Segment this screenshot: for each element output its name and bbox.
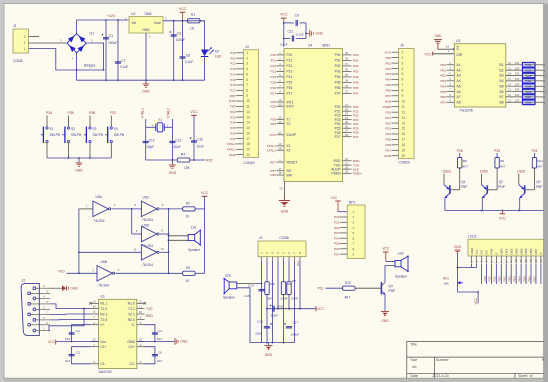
svg-text:B1: B1 [500, 63, 504, 67]
svg-text:P04: P04 [353, 75, 359, 79]
svg-text:P02: P02 [334, 226, 340, 230]
svg-text:11: 11 [139, 305, 142, 309]
pin INT0 U4 left [270, 102, 293, 108]
ground GND q4 [381, 312, 389, 324]
pin C2- U1 right [129, 360, 144, 366]
svg-text:R1.0: R1.0 [128, 302, 135, 306]
svg-text:S4: S4 [114, 127, 118, 131]
pin X2 U4 left [267, 146, 291, 152]
svg-text:B3: B3 [500, 74, 504, 78]
svg-text:3: 3 [353, 221, 355, 225]
pin P22 U4 right [335, 112, 359, 118]
svg-text:4K7: 4K7 [500, 165, 506, 169]
svg-text:29: 29 [345, 170, 348, 174]
wire LCD pin 13 [530, 264, 532, 285]
svg-text:P24: P24 [385, 132, 391, 136]
pin ALE/P U4 right [331, 165, 359, 171]
pin P24 U4 right [335, 120, 359, 126]
svg-text:4K7: 4K7 [537, 165, 543, 169]
svg-text:1: 1 [353, 210, 355, 214]
svg-text:18: 18 [402, 143, 406, 147]
svg-text:LCD1: LCD1 [468, 235, 477, 239]
svg-text:P25: P25 [385, 138, 391, 142]
svg-text:R8: R8 [463, 159, 467, 163]
svg-text:4: 4 [246, 67, 248, 71]
svg-text:P07: P07 [532, 276, 536, 282]
svg-text:R: R [542, 358, 545, 362]
svg-text:200K: 200K [291, 297, 299, 301]
node P24 [532, 149, 538, 153]
svg-text:D01: D01 [526, 63, 532, 67]
pin P00 U4 right [335, 51, 359, 57]
svg-text:P07: P07 [335, 92, 341, 96]
svg-text:P21: P21 [488, 276, 492, 282]
wire bridge right loop [86, 43, 103, 70]
resistor R5 4K7 [265, 261, 275, 343]
ground GND mcu top [305, 30, 323, 37]
svg-text:10: 10 [161, 247, 165, 251]
svg-text:C15: C15 [244, 294, 250, 298]
svg-text:P10: P10 [58, 270, 64, 274]
svg-text:14: 14 [534, 259, 538, 262]
svg-text:Number: Number [436, 358, 450, 362]
svg-text:VCC: VCC [280, 13, 288, 17]
svg-text:GND: GND [265, 353, 273, 357]
wire LS2 bottom [237, 288, 262, 343]
svg-text:R4: R4 [181, 153, 185, 157]
svg-text:INT0: INT0 [287, 105, 294, 109]
svg-text:330: 330 [515, 88, 520, 92]
wire LCD pin 7 [500, 264, 502, 285]
svg-text:Date: Date [410, 374, 418, 378]
svg-text:GND: GND [381, 319, 389, 323]
svg-text:P22: P22 [385, 121, 391, 125]
svg-text:D06: D06 [526, 90, 532, 94]
svg-text:PNP: PNP [389, 289, 396, 293]
pin T0 U4 left [270, 120, 290, 126]
wire LCD pin 14 [535, 264, 537, 285]
svg-text:11: 11 [345, 161, 348, 165]
svg-text:VCC: VCC [425, 52, 433, 56]
node P11 [318, 287, 343, 291]
pin P01 U4 right [335, 57, 359, 63]
svg-text:8: 8 [353, 247, 355, 251]
svg-text:GND: GND [229, 153, 237, 157]
capacitor C10 10uF [190, 137, 204, 149]
switch S4 SW-PB [105, 116, 124, 159]
node P22 lcd [493, 276, 497, 282]
svg-text:P16: P16 [230, 83, 236, 87]
resistor R11 4K7 [532, 153, 543, 190]
wire LS2 top [237, 283, 263, 285]
power VCC lcd [474, 297, 478, 304]
svg-text:D03: D03 [526, 74, 532, 78]
svg-text:C4: C4 [158, 329, 162, 333]
svg-text:XTAL2: XTAL2 [167, 108, 171, 118]
svg-text:VCC: VCC [190, 110, 198, 114]
svg-text:11: 11 [402, 105, 406, 109]
svg-text:74LS04: 74LS04 [142, 218, 153, 222]
svg-text:P05: P05 [353, 81, 359, 85]
svg-text:D07: D07 [526, 95, 532, 99]
connector J4 CON20 [227, 45, 259, 165]
svg-text:26: 26 [345, 124, 348, 128]
pin C1+ U1 left [91, 343, 107, 349]
svg-text:P04: P04 [385, 78, 391, 82]
svg-text:CON20: CON20 [243, 161, 254, 165]
svg-text:4K7: 4K7 [345, 296, 351, 300]
svg-text:P17: P17 [230, 89, 236, 93]
svg-text:DB7: DB7 [534, 248, 538, 254]
svg-text:ALE: ALE [385, 99, 391, 103]
svg-text:10K: 10K [184, 166, 191, 170]
svg-text:U5D: U5D [143, 224, 150, 228]
svg-text:U3: U3 [456, 39, 460, 43]
svg-text:Title: Title [410, 342, 417, 346]
svg-text:P03: P03 [335, 70, 341, 74]
capacitor C4 104 [145, 325, 163, 342]
svg-text:DIR: DIR [457, 53, 463, 57]
resistor network row B3 330 [500, 72, 546, 78]
svg-text:Vin: Vin [132, 21, 137, 25]
svg-text:D08: D08 [526, 101, 532, 105]
svg-text:P13: P13 [287, 70, 293, 74]
svg-text:P15: P15 [230, 78, 236, 82]
svg-text:VCC: VCC [317, 307, 325, 311]
svg-text:Vcc: Vcc [100, 340, 106, 344]
svg-text:11: 11 [133, 248, 136, 252]
pin P21 U4 right [335, 107, 359, 113]
svg-text:11: 11 [519, 259, 523, 262]
svg-text:330: 330 [515, 66, 520, 70]
power VCC j3 [316, 306, 325, 311]
resistor network row B5 330 [500, 82, 546, 88]
node P06 lcd [527, 276, 531, 282]
resistor R2 1K [183, 202, 205, 219]
svg-text:19: 19 [279, 142, 282, 146]
pin P05 U4 right [335, 79, 359, 85]
svg-text:LED: LED [215, 55, 222, 59]
capacitor C5 104 [65, 347, 91, 364]
node P07 lcd [532, 276, 536, 282]
svg-text:P06: P06 [335, 86, 341, 90]
svg-text:P06: P06 [385, 89, 391, 93]
svg-text:11: 11 [508, 98, 511, 102]
svg-text:17: 17 [279, 167, 282, 171]
wire J1 pin2 to bridge [29, 42, 68, 44]
svg-text:U4: U4 [308, 44, 312, 48]
pin P02 U4 right [335, 62, 359, 68]
speaker LS2 [223, 273, 237, 299]
svg-text:19: 19 [246, 147, 250, 151]
svg-text:DB1: DB1 [504, 248, 508, 254]
resistor R3 1K [183, 266, 205, 283]
svg-text:P01: P01 [440, 68, 446, 72]
svg-text:RXD: RXD [229, 99, 236, 103]
svg-text:U1: U1 [101, 295, 105, 299]
svg-text:C5: C5 [76, 351, 80, 355]
svg-text:B4: B4 [500, 79, 504, 83]
svg-text:GND: GND [384, 154, 392, 158]
capacitor C12 30pF [143, 127, 155, 160]
svg-text:P03: P03 [353, 70, 359, 74]
svg-text:D02: D02 [526, 68, 532, 72]
svg-text:C9: C9 [295, 14, 299, 18]
svg-text:P35: P35 [230, 126, 236, 130]
svg-text:V+: V+ [100, 323, 104, 327]
svg-text:VCC: VCC [331, 196, 338, 200]
resistor network row B1 330 [500, 61, 546, 67]
svg-text:P13: P13 [270, 70, 276, 74]
pin P11 U4 left [271, 57, 293, 63]
crystal Y1 [146, 118, 173, 132]
svg-text:4: 4 [402, 67, 404, 71]
svg-text:P00: P00 [385, 56, 391, 60]
svg-text:P02: P02 [385, 67, 391, 71]
svg-text:P32: P32 [270, 104, 276, 108]
svg-text:9: 9 [353, 252, 355, 256]
svg-text:GND: GND [142, 90, 150, 94]
svg-text:Vout: Vout [154, 21, 161, 25]
svg-text:DB3: DB3 [514, 248, 518, 254]
capacitor C8 0.1uF [180, 21, 194, 81]
wire LCD pin 12 [525, 264, 527, 285]
capacitor C11 0.1uF [280, 23, 306, 47]
pin R2.0 U1 right [128, 316, 145, 322]
svg-text:RP2: RP2 [443, 277, 449, 281]
svg-text:XTAL2: XTAL2 [267, 148, 277, 152]
ground GND lcd [454, 245, 477, 292]
pin P10 U4 left [270, 51, 292, 57]
svg-text:T2.0: T2.0 [100, 318, 107, 322]
svg-text:C6: C6 [158, 351, 162, 355]
svg-text:74LS04: 74LS04 [142, 263, 153, 267]
ground GND mcu bottom [279, 201, 290, 214]
svg-text:TXD: TXD [146, 307, 153, 311]
svg-text:P37: P37 [230, 137, 236, 141]
potentiometer RP1 10K lcd contrast [443, 277, 463, 286]
svg-text:PSEN: PSEN [383, 105, 391, 109]
wire DB9 pins to MAX232 [49, 304, 91, 331]
svg-text:10: 10 [139, 310, 143, 314]
svg-text:P05: P05 [522, 276, 526, 282]
svg-text:GND: GND [470, 247, 474, 255]
svg-text:P04: P04 [517, 276, 521, 282]
svg-text:D04: D04 [526, 79, 532, 83]
svg-text:14: 14 [93, 305, 97, 309]
speaker LS1 [169, 225, 202, 252]
pin P14 U4 left [270, 73, 292, 79]
svg-text:4K7: 4K7 [463, 165, 469, 169]
svg-text:100uF: 100uF [176, 38, 185, 42]
wire DB9 pin5 to gnd [50, 287, 62, 289]
node P37 [110, 111, 116, 115]
svg-text:J1: J1 [13, 24, 17, 28]
svg-text:DB4: DB4 [519, 248, 523, 254]
svg-text:SW-PB: SW-PB [50, 133, 60, 137]
svg-text:B6: B6 [500, 90, 504, 94]
pin A1 U3 [440, 61, 460, 67]
ground GND U3 [434, 34, 455, 50]
connector J1 CON3 [13, 24, 29, 63]
svg-text:P05: P05 [385, 83, 391, 87]
svg-text:EA/VP: EA/VP [287, 133, 298, 137]
svg-text:74LS245: 74LS245 [459, 109, 473, 113]
svg-text:R6: R6 [287, 282, 291, 286]
node TXD [146, 307, 153, 311]
svg-text:13: 13 [246, 115, 250, 119]
svg-text:P24: P24 [532, 149, 538, 153]
svg-text:of: of [530, 374, 533, 378]
svg-text:23: 23 [345, 112, 348, 116]
svg-text:-: - [72, 26, 73, 30]
svg-text:P00: P00 [334, 215, 340, 219]
svg-text:30pF: 30pF [147, 145, 154, 149]
svg-text:4: 4 [353, 226, 355, 230]
svg-text:18: 18 [246, 142, 250, 146]
svg-text:P01: P01 [503, 276, 507, 282]
svg-text:0.1uF: 0.1uF [296, 33, 304, 37]
svg-text:P05: P05 [335, 81, 341, 85]
pin EA/VP U4 left [269, 131, 297, 137]
svg-text:D2: D2 [215, 50, 219, 54]
pin P20 U4 right [335, 103, 359, 109]
switch S1 SW-PB [41, 116, 60, 159]
node P05 lcd [522, 276, 526, 282]
svg-text:P06: P06 [353, 86, 359, 90]
svg-text:P17: P17 [287, 92, 293, 96]
power VCC display [499, 211, 507, 221]
wire LCD pin 5 [490, 264, 492, 285]
pin P13 U4 left [270, 68, 292, 74]
wire LCD pin 10 [515, 264, 517, 285]
switch S3 SW-PB [84, 116, 103, 159]
wire bridge bottom drop [76, 53, 78, 80]
pin Vcc U1 left [91, 338, 107, 344]
svg-text:P16: P16 [270, 86, 276, 90]
svg-text:VCC: VCC [179, 7, 187, 11]
svg-text:C3: C3 [177, 32, 181, 36]
svg-text:P02: P02 [335, 64, 341, 68]
svg-text:D05: D05 [526, 85, 532, 89]
svg-text:3.3uF: 3.3uF [271, 314, 279, 318]
svg-text:P07: P07 [440, 100, 446, 104]
svg-text:13: 13 [93, 300, 97, 304]
svg-text:16: 16 [508, 72, 511, 76]
svg-text:S1: S1 [50, 127, 54, 131]
svg-text:14: 14 [246, 121, 250, 125]
svg-text:24: 24 [345, 116, 348, 120]
svg-text:25: 25 [345, 120, 348, 124]
svg-text:T2.1: T2.1 [128, 312, 135, 316]
svg-text:2: 2 [24, 41, 26, 45]
power VCC rp1 [331, 196, 348, 212]
svg-text:35: 35 [345, 73, 348, 77]
svg-text:P10: P10 [270, 53, 276, 57]
svg-text:GND: GND [316, 32, 324, 36]
svg-text:17: 17 [508, 66, 511, 70]
op-amp U5C 74LS04 [134, 196, 182, 223]
svg-text:P05: P05 [440, 90, 446, 94]
svg-text:R1.1: R1.1 [100, 302, 107, 306]
svg-text:Sheet: Sheet [518, 374, 527, 378]
ground GND max232 [175, 338, 188, 345]
pin A8 U3 [440, 98, 460, 104]
svg-text:GND: GND [454, 245, 462, 249]
pin A7 U3 [440, 93, 460, 99]
pin A3 U3 [440, 72, 460, 78]
svg-text:P13: P13 [230, 67, 236, 71]
svg-text:12: 12 [524, 259, 528, 262]
svg-text:5: 5 [402, 72, 404, 76]
svg-text:P00: P00 [440, 63, 446, 67]
resistor R6 200K [281, 261, 292, 343]
transistor Q3 PNP [519, 174, 542, 211]
svg-text:16: 16 [402, 132, 406, 136]
op-amp U5D 74LS04 [132, 209, 170, 248]
node P02 lcd [508, 276, 512, 282]
svg-text:1: 1 [402, 50, 404, 54]
svg-text:SW-PB: SW-PB [114, 133, 124, 137]
svg-text:P07: P07 [353, 92, 359, 96]
svg-text:104: 104 [157, 359, 162, 363]
no-connect x R1.0 [144, 302, 147, 305]
svg-text:P03: P03 [385, 72, 391, 76]
pin A4 U3 [440, 77, 460, 83]
svg-text:RST: RST [230, 94, 236, 98]
speaker LS3 [385, 252, 409, 283]
wire buttons gnd rail [47, 157, 111, 159]
pin RESET U4 left [270, 158, 298, 164]
pin C2+ U1 right [128, 343, 144, 349]
capacitor C3 100uF [169, 20, 185, 81]
pin A6 U3 [440, 88, 460, 94]
svg-text:P01: P01 [335, 59, 341, 63]
svg-text:104: 104 [157, 337, 162, 341]
svg-text:P32: P32 [230, 110, 236, 114]
svg-text:J4: J4 [245, 45, 249, 49]
svg-text:8051: 8051 [323, 44, 331, 48]
svg-text:LS3: LS3 [398, 252, 404, 256]
svg-text:X2: X2 [287, 149, 291, 153]
pin A5 U3 [440, 82, 460, 88]
svg-text:C2-: C2- [129, 362, 135, 366]
svg-text:B2: B2 [500, 68, 504, 72]
svg-text:37: 37 [345, 62, 348, 66]
svg-text:P03: P03 [512, 276, 516, 282]
svg-text:U5C: U5C [143, 196, 150, 200]
svg-text:C1+: C1+ [100, 345, 107, 349]
node DS01 [517, 170, 525, 174]
svg-text:VCC: VCC [474, 297, 478, 304]
resistor network row B4 330 [500, 77, 546, 83]
svg-text:8: 8 [402, 89, 404, 93]
svg-text:33: 33 [345, 84, 348, 88]
svg-text:SW-PB: SW-PB [93, 133, 103, 137]
pin P17 U4 left [270, 90, 292, 96]
svg-text:R10: R10 [345, 281, 351, 285]
power VCC crystal [190, 110, 198, 161]
svg-text:RST: RST [270, 160, 276, 164]
svg-text:74LS04: 74LS04 [98, 284, 109, 288]
svg-text:12: 12 [246, 110, 250, 114]
svg-text:A7: A7 [457, 95, 461, 99]
svg-text:R11: R11 [538, 159, 544, 163]
wire bottom rail power [77, 69, 205, 80]
connector J3 CON8 [258, 236, 306, 261]
wire LCD pin 6 [495, 264, 497, 285]
svg-text:10: 10 [402, 99, 406, 103]
